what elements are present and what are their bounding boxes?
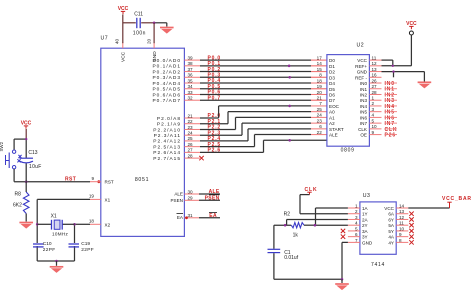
svg-text:D7: D7 <box>329 98 335 103</box>
svg-text:18: 18 <box>317 78 323 83</box>
svg-text:2A: 2A <box>362 217 369 222</box>
svg-text:IN5: IN5 <box>360 110 368 115</box>
svg-text:22PF: 22PF <box>81 247 94 253</box>
svg-text:VCC: VCC <box>384 206 394 211</box>
svg-text:P2.4/A12: P2.4/A12 <box>153 139 181 145</box>
svg-text:7: 7 <box>319 101 322 106</box>
svg-text:3Y: 3Y <box>362 235 368 240</box>
svg-text:REF+: REF+ <box>355 64 367 69</box>
svg-text:U3: U3 <box>363 193 371 199</box>
svg-text:6Y: 6Y <box>388 217 394 222</box>
svg-text:P0.4/AD4: P0.4/AD4 <box>152 81 181 87</box>
svg-text:A0: A0 <box>329 110 335 115</box>
svg-text:23: 23 <box>317 118 323 123</box>
svg-text:18: 18 <box>89 219 95 224</box>
svg-text:PSEN: PSEN <box>205 195 220 201</box>
svg-text:C19: C19 <box>81 241 90 247</box>
svg-text:1Y: 1Y <box>362 212 368 217</box>
svg-text:P0.5/AD5: P0.5/AD5 <box>152 87 181 93</box>
svg-text:A1: A1 <box>329 115 335 120</box>
svg-text:P0.3/AD3: P0.3/AD3 <box>152 75 181 81</box>
svg-text:24: 24 <box>317 113 323 118</box>
svg-text:REF -: REF - <box>355 75 367 80</box>
svg-text:X1: X1 <box>105 197 111 202</box>
svg-text:5Y: 5Y <box>388 229 394 234</box>
svg-text:1A: 1A <box>362 206 369 211</box>
svg-text:RST: RST <box>65 176 76 182</box>
svg-text:3A: 3A <box>362 229 369 234</box>
svg-text:CLK: CLK <box>358 127 368 132</box>
svg-text:9: 9 <box>91 176 94 181</box>
svg-text:15: 15 <box>317 67 323 72</box>
svg-text:U2: U2 <box>357 43 365 49</box>
svg-text:22PF: 22PF <box>43 247 56 253</box>
svg-text:IN2: IN2 <box>360 92 368 97</box>
svg-text:IN4: IN4 <box>360 104 368 109</box>
svg-text:40: 40 <box>114 38 119 44</box>
svg-text:17: 17 <box>317 55 323 60</box>
svg-text:C10: C10 <box>43 241 52 247</box>
svg-text:20: 20 <box>317 90 323 95</box>
svg-text:7414: 7414 <box>371 262 385 268</box>
svg-text:20: 20 <box>146 38 151 44</box>
svg-text:U7: U7 <box>101 36 109 42</box>
svg-text:25: 25 <box>317 107 323 112</box>
svg-text:X1: X1 <box>51 214 57 220</box>
svg-text:GND: GND <box>357 70 368 75</box>
svg-text:GND: GND <box>362 240 373 245</box>
svg-text:14: 14 <box>317 61 323 66</box>
svg-text:D1: D1 <box>329 64 335 69</box>
svg-text:P0.0/AD0: P0.0/AD0 <box>152 58 181 64</box>
svg-text:PSEN: PSEN <box>170 198 183 203</box>
svg-text:VCC: VCC <box>120 51 126 62</box>
svg-text:D0: D0 <box>329 58 335 63</box>
svg-text:R8: R8 <box>15 192 22 198</box>
svg-text:P0.1/AD1: P0.1/AD1 <box>152 64 181 70</box>
svg-text:VCC_BAR: VCC_BAR <box>442 196 472 202</box>
svg-text:C13: C13 <box>28 150 37 156</box>
svg-text:4A: 4A <box>388 235 395 240</box>
svg-text:10MHz: 10MHz <box>52 232 68 237</box>
svg-text:P0.2/AD2: P0.2/AD2 <box>152 69 181 75</box>
svg-text:P0.7/AD7: P0.7/AD7 <box>152 98 181 104</box>
svg-text:RST: RST <box>105 180 114 185</box>
svg-text:OE: OE <box>360 133 367 138</box>
svg-text:ALE: ALE <box>209 189 220 195</box>
svg-text:EA: EA <box>177 215 184 220</box>
svg-text:22: 22 <box>317 130 323 135</box>
svg-text:IN3: IN3 <box>360 98 368 103</box>
svg-text:VCC: VCC <box>357 58 367 63</box>
svg-text:19: 19 <box>89 194 95 199</box>
svg-text:A2: A2 <box>329 121 335 126</box>
svg-text:6A: 6A <box>388 212 395 217</box>
svg-text:4Y: 4Y <box>388 240 394 245</box>
svg-text:EOC: EOC <box>329 104 340 109</box>
svg-text:P2.7/A15: P2.7/A15 <box>153 156 181 162</box>
svg-text:D4: D4 <box>329 81 335 86</box>
svg-text:D3: D3 <box>329 75 335 80</box>
svg-text:P2.2/A10: P2.2/A10 <box>153 127 181 133</box>
svg-text:2Y: 2Y <box>362 223 368 228</box>
svg-text:D6: D6 <box>329 92 335 97</box>
svg-text:P2.6/A14: P2.6/A14 <box>153 150 181 156</box>
svg-text:5A: 5A <box>388 223 395 228</box>
svg-text:21: 21 <box>317 96 323 101</box>
svg-text:EA: EA <box>209 213 217 219</box>
svg-text:D5: D5 <box>329 87 335 92</box>
svg-text:10uF: 10uF <box>29 164 42 170</box>
svg-text:1k: 1k <box>293 233 299 239</box>
svg-text:X2: X2 <box>105 222 111 227</box>
svg-text:ALE: ALE <box>329 133 338 138</box>
svg-text:R2: R2 <box>284 211 291 217</box>
svg-text:6: 6 <box>319 124 322 129</box>
svg-text:P2.3/A11: P2.3/A11 <box>154 133 181 139</box>
svg-text:100n: 100n <box>133 31 146 37</box>
svg-text:0809: 0809 <box>341 148 355 154</box>
svg-text:D2: D2 <box>329 70 335 75</box>
svg-text:19: 19 <box>317 84 323 89</box>
svg-text:START: START <box>329 127 344 132</box>
svg-text:IN6: IN6 <box>360 115 368 120</box>
svg-text:IN7: IN7 <box>360 121 368 126</box>
svg-text:P0.6/AD6: P0.6/AD6 <box>152 92 181 98</box>
svg-text:IN1: IN1 <box>360 87 368 92</box>
svg-text:P2.1/A9: P2.1/A9 <box>157 122 181 128</box>
svg-text:P2.5/A13: P2.5/A13 <box>153 144 181 150</box>
svg-text:P2.0/A8: P2.0/A8 <box>157 116 181 122</box>
svg-text:ALE: ALE <box>174 192 183 197</box>
svg-text:0.01uf: 0.01uf <box>284 255 299 261</box>
svg-text:P26: P26 <box>385 132 397 138</box>
svg-text:SW2: SW2 <box>0 141 4 151</box>
svg-text:8051: 8051 <box>135 177 149 183</box>
svg-text:IN0: IN0 <box>360 81 368 86</box>
svg-text:6K2: 6K2 <box>13 203 22 209</box>
svg-text:C11: C11 <box>134 11 143 17</box>
svg-text:8: 8 <box>319 73 322 78</box>
